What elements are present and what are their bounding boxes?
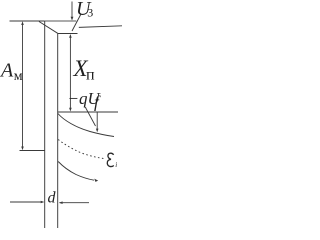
wire metal-oxide interface vertical — [44, 21, 46, 228]
wire oxide top edge line — [58, 33, 78, 35]
arrow d left shaft — [10, 201, 43, 203]
arrowhead X_p down — [69, 108, 72, 112]
arrowhead -qU down — [96, 129, 99, 133]
wire vacuum level continuation to break — [45, 20, 77, 22]
arrowhead d right — [41, 201, 45, 204]
arrow d right shaft — [60, 202, 90, 204]
svg-text:п: п — [86, 67, 95, 84]
arrow -qU shaft — [96, 112, 98, 130]
arrowhead A_m up — [21, 21, 24, 25]
arrowhead d left — [59, 201, 63, 204]
svg-text:м: м — [14, 69, 23, 84]
wire oxide-semiconductor interface vertical — [57, 34, 59, 229]
wire metal Fermi level — [20, 150, 45, 152]
arrow A_m shaft — [22, 23, 24, 149]
arrowhead X_p up — [69, 34, 72, 38]
wire conduction band edge line Ec — [58, 111, 118, 113]
curve intrinsic level dotted — [58, 140, 104, 159]
arrowhead valence curve end — [94, 179, 98, 182]
svg-text:d: d — [48, 190, 57, 207]
drawn epsilon glyph — [107, 153, 114, 166]
wire vacuum level metal side — [10, 20, 45, 22]
wire sloped vacuum level across oxide — [39, 22, 58, 34]
arrowhead A_m down — [21, 147, 24, 151]
curve conduction band bending — [58, 114, 114, 137]
arrow U3 shaft — [71, 2, 73, 18]
curve valence band bending — [58, 162, 94, 181]
svg-text:i: i — [115, 161, 117, 169]
wire break slash — [72, 14, 81, 31]
arrow -qU leader — [86, 108, 96, 127]
svg-text:A: A — [0, 60, 14, 82]
svg-text:f: f — [94, 93, 101, 112]
arrow X_p shaft — [69, 36, 71, 111]
svg-text:3: 3 — [87, 5, 93, 19]
wire vacuum level semiconductor side — [79, 26, 122, 28]
arrowhead U3 down — [71, 17, 74, 21]
